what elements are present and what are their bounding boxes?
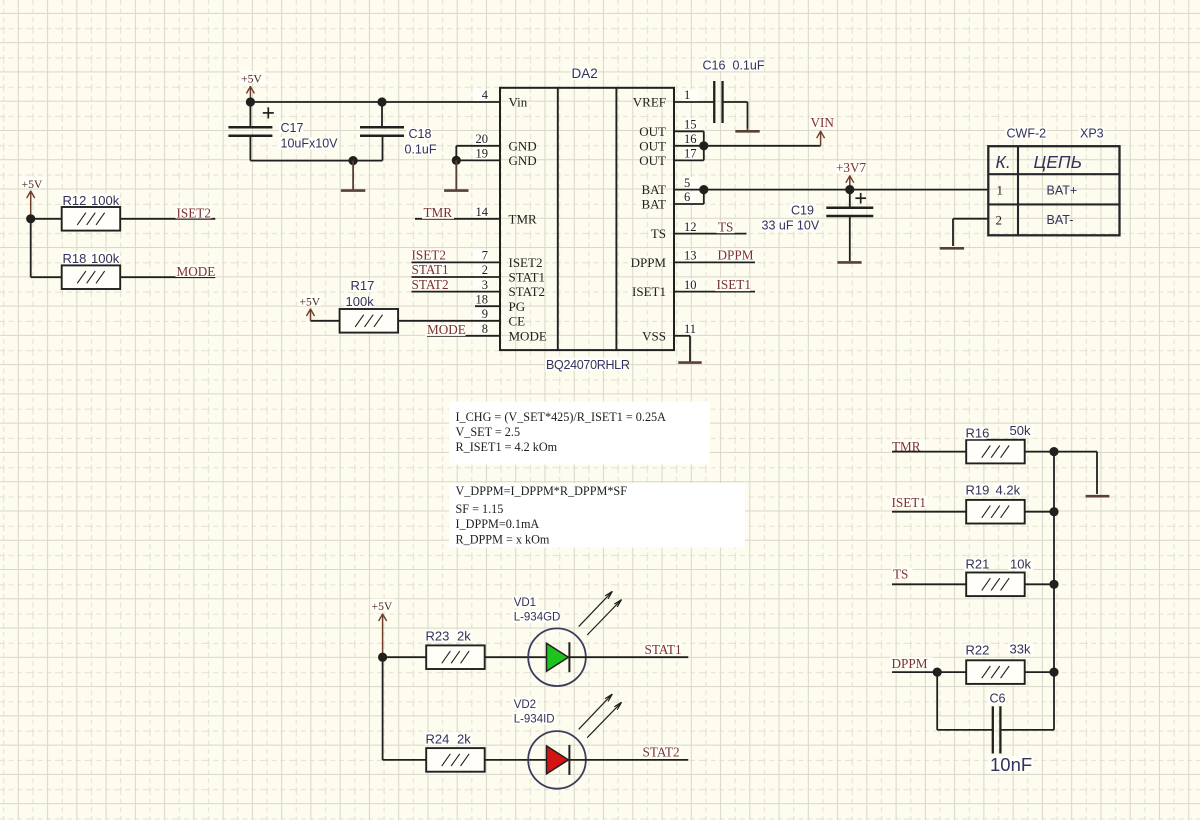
- net label ISET2: [176, 207, 212, 219]
- svg-text:6: 6: [684, 190, 690, 204]
- svg-text:15: 15: [684, 118, 697, 132]
- svg-text:XP3: XP3: [1080, 127, 1104, 141]
- resistor R21: [967, 574, 1024, 596]
- svg-text:2k: 2k: [457, 731, 471, 746]
- junction +3V7 / C19: [845, 185, 854, 194]
- label C17 10uFx10V: [279, 122, 303, 134]
- junction node +5V / R12: [26, 214, 35, 223]
- net label TS (ladder): [892, 567, 913, 580]
- connector XP3 table: [988, 146, 1119, 235]
- svg-text:12: 12: [684, 220, 697, 234]
- wire TMR to R16: [892, 451, 966, 453]
- svg-text:100k: 100k: [346, 294, 375, 309]
- label R18 100k: [62, 252, 120, 265]
- label VD1 L-934GD: [512, 596, 538, 609]
- svg-text:V_DPPM=I_DPPM*R_DPPM*SF: V_DPPM=I_DPPM*R_DPPM*SF: [456, 484, 628, 498]
- junction +5V / R23: [378, 653, 387, 662]
- wire +5V rail to pin 4 Vin: [250, 101, 500, 103]
- net label ISET1 (pin 10): [715, 279, 750, 292]
- svg-text:DPPM: DPPM: [631, 255, 667, 270]
- svg-text:R19: R19: [966, 483, 990, 498]
- label BQ24070RHLR: [545, 358, 625, 371]
- svg-text:+3V7: +3V7: [836, 160, 867, 175]
- DA2 pin 6 (BAT) right: [683, 191, 699, 203]
- svg-text:33k: 33k: [1010, 642, 1031, 657]
- svg-text:R21: R21: [966, 557, 990, 572]
- resistor R24: [427, 749, 484, 771]
- wire R16 to bus: [1025, 451, 1054, 453]
- svg-text:BAT+: BAT+: [1047, 183, 1078, 197]
- svg-text:OUT: OUT: [639, 138, 666, 153]
- wire VD1 to STAT1: [569, 656, 688, 658]
- svg-text:+5V: +5V: [241, 73, 262, 86]
- svg-text:PG: PG: [509, 299, 526, 314]
- svg-text:ISET2: ISET2: [412, 248, 446, 263]
- net label TS (pin 12): [717, 221, 735, 233]
- svg-text:2: 2: [996, 212, 1003, 227]
- wire R22 to bus: [1025, 671, 1054, 673]
- note block: V_DPPM formula: [449, 483, 745, 548]
- wire C6 to bus: [1000, 729, 1054, 731]
- svg-text:R22: R22: [966, 643, 990, 658]
- svg-text:BAT-: BAT-: [1047, 213, 1074, 227]
- svg-text:C19: C19: [791, 203, 814, 217]
- wire pin 1 VREF to C16: [674, 101, 714, 103]
- svg-text:TMR: TMR: [509, 211, 538, 226]
- DA2 pin 5 (BAT) right: [683, 177, 699, 189]
- junction R16 / bus: [1049, 447, 1058, 456]
- wire BAT pins 5/6 tie: [674, 189, 704, 191]
- power flag +3V7: [835, 162, 866, 174]
- wire BAT to XP3 pin 1: [704, 189, 989, 191]
- LED VD2 (L-934ID red): [528, 731, 586, 789]
- svg-text:ISET2: ISET2: [177, 205, 211, 220]
- svg-text:ЦЕПЬ: ЦЕПЬ: [1034, 152, 1082, 172]
- ground (C16): [747, 129, 749, 131]
- wire +5V rail to R23 and R24: [383, 656, 427, 658]
- svg-text:R23: R23: [426, 629, 450, 644]
- net label STAT1 (LED): [643, 643, 682, 656]
- svg-text:18: 18: [476, 292, 489, 306]
- wire ISET2 stub to pin 7: [412, 261, 501, 263]
- wire DPPM stub pin 13: [674, 261, 755, 263]
- svg-text:ISET1: ISET1: [717, 277, 751, 292]
- svg-text:К.: К.: [996, 152, 1011, 172]
- net label MODE (pin 8): [426, 323, 466, 336]
- DA2 pin 20 (GND) left: [473, 133, 489, 145]
- ground (ladder): [1086, 495, 1110, 498]
- label R22 33k: [964, 644, 987, 657]
- svg-text:STAT2: STAT2: [509, 284, 546, 299]
- capacitor C16 (0.1uF): [713, 81, 715, 123]
- svg-text:50k: 50k: [1010, 423, 1031, 438]
- svg-text:100k: 100k: [91, 251, 120, 266]
- label C6: [988, 692, 1006, 705]
- ground (BAT-): [940, 247, 964, 250]
- wire TS to R21: [892, 583, 966, 585]
- power +5V (R12/R18 rail): [21, 177, 46, 189]
- svg-text:DPPM: DPPM: [892, 656, 928, 671]
- svg-text:Vin: Vin: [509, 95, 528, 110]
- svg-text:ISET1: ISET1: [892, 495, 926, 510]
- svg-text:5: 5: [684, 176, 690, 190]
- svg-text:VD1: VD1: [514, 597, 536, 609]
- DA2 pin 16 (OUT) right: [683, 133, 699, 145]
- svg-text:TS: TS: [651, 226, 666, 241]
- svg-text:33 uF 10V: 33 uF 10V: [762, 218, 820, 232]
- svg-text:DA2: DA2: [572, 66, 598, 81]
- resistor R19: [967, 501, 1024, 523]
- net label TMR (pin 14): [422, 207, 454, 219]
- svg-text:R_DPPM = x kOm: R_DPPM = x kOm: [456, 533, 550, 547]
- DA2 pin 2 (STAT1) left: [473, 264, 489, 276]
- svg-text:STAT1: STAT1: [412, 262, 449, 277]
- svg-text:0.1uF: 0.1uF: [733, 58, 765, 72]
- svg-text:17: 17: [684, 147, 697, 161]
- wire GND pins 20/19: [456, 145, 500, 147]
- svg-text:1: 1: [684, 88, 690, 102]
- net label DPPM (pin 13): [716, 249, 756, 261]
- wire C17 bottom to C18 bottom: [250, 160, 382, 162]
- wire VD2 to STAT2: [569, 759, 688, 761]
- DA2 pin 19 (GND) left: [473, 148, 489, 160]
- ground (GND pins): [455, 160, 457, 189]
- power +5V (input rail): [240, 71, 265, 83]
- svg-text:V_SET = 2.5: V_SET = 2.5: [456, 425, 521, 439]
- net label DPPM (ladder): [890, 657, 933, 670]
- net label ISET2 (pin 7): [410, 249, 447, 261]
- label R23 2k: [425, 630, 473, 643]
- ground (C17/C18 node): [352, 161, 354, 190]
- DA2 pin 18 (PG) left: [473, 294, 489, 306]
- svg-text:2k: 2k: [457, 629, 471, 644]
- svg-text:R12: R12: [63, 193, 87, 208]
- resistor R23: [427, 646, 484, 668]
- DA2 pin 15 (OUT) right: [683, 119, 699, 131]
- svg-text:1: 1: [997, 183, 1004, 198]
- svg-text:SF = 1.15: SF = 1.15: [456, 502, 504, 516]
- capacitor C18 (0.1uF): [381, 102, 383, 128]
- svg-text:C17: C17: [281, 121, 304, 135]
- net label STAT1 (pin 2): [410, 264, 448, 276]
- resistor R16: [967, 441, 1024, 463]
- svg-text:BAT: BAT: [641, 182, 666, 197]
- svg-text:STAT1: STAT1: [645, 642, 682, 657]
- wire OUT to VIN flag: [704, 145, 821, 147]
- DA2 pin 4 (Vin) left: [473, 89, 489, 101]
- IC DA2 body (BQ24070RHLR): [500, 88, 674, 350]
- junction GND pins: [452, 156, 461, 165]
- svg-text:14: 14: [476, 205, 489, 219]
- svg-text:3: 3: [482, 278, 488, 292]
- label C19 33uF 10V: [790, 204, 815, 216]
- svg-text:GND: GND: [509, 153, 537, 168]
- svg-text:8: 8: [482, 322, 488, 336]
- DA2 pin 12 (TS) right: [683, 221, 699, 233]
- junction R19 / bus: [1049, 507, 1058, 516]
- svg-text:GND: GND: [509, 138, 537, 153]
- svg-text:13: 13: [684, 249, 697, 263]
- svg-text:TMR: TMR: [424, 205, 453, 220]
- svg-text:L-934ID: L-934ID: [514, 713, 555, 725]
- connector XP3 labels CWF-2 / XP3: [1005, 127, 1047, 140]
- wire TS stub pin 12: [674, 233, 747, 235]
- svg-text:R17: R17: [351, 278, 375, 293]
- svg-text:0.1uF: 0.1uF: [405, 142, 437, 156]
- svg-text:4.2k: 4.2k: [996, 483, 1021, 498]
- svg-text:L-934GD: L-934GD: [514, 612, 561, 624]
- DA2 pin 13 (DPPM) right: [683, 250, 699, 261]
- wire VSS pin 11 to ground: [674, 335, 690, 337]
- label C18 0.1uF: [407, 128, 432, 140]
- svg-text:VD2: VD2: [514, 699, 536, 711]
- wire R19 to bus: [1025, 511, 1054, 513]
- svg-text:MODE: MODE: [427, 322, 466, 337]
- wire TMR stub to pin 14: [415, 218, 500, 220]
- svg-text:VIN: VIN: [811, 115, 835, 130]
- svg-text:R24: R24: [426, 731, 450, 746]
- svg-text:19: 19: [476, 147, 489, 161]
- DA2 pin 3 (STAT2) left: [473, 279, 489, 291]
- wire ladder bus: [1053, 452, 1055, 730]
- svg-text:+5V: +5V: [372, 600, 393, 613]
- label R21 10k: [964, 558, 987, 571]
- wire ISET1 to R19: [892, 511, 966, 513]
- junction BAT: [699, 185, 708, 194]
- svg-text:DPPM: DPPM: [718, 248, 754, 263]
- svg-text:+5V: +5V: [22, 178, 43, 191]
- DA2 pin 11 (VSS) right: [683, 323, 699, 335]
- junction ground node (C17/C18): [349, 156, 358, 165]
- DA2 pin 14 (TMR) left: [473, 206, 489, 218]
- DA2 pin 9 (CE) left: [473, 308, 489, 320]
- svg-text:C18: C18: [409, 127, 432, 141]
- svg-text:TS: TS: [718, 220, 733, 235]
- wire OUT pins 15/16/17 tie: [674, 130, 704, 132]
- label VD2 L-934ID: [512, 697, 538, 710]
- wire R12 to net ISET2: [120, 218, 215, 220]
- label R17 100k: [350, 280, 374, 292]
- svg-text:ISET1: ISET1: [632, 284, 666, 299]
- svg-text:BAT: BAT: [641, 197, 666, 212]
- DA2 pin 7 (ISET2) left: [473, 250, 489, 261]
- svg-text:I_CHG = (V_SET*425)/R_ISET1 =: I_CHG = (V_SET*425)/R_ISET1 = 0.25A: [456, 410, 667, 424]
- svg-text:CWF-2: CWF-2: [1007, 127, 1047, 141]
- svg-text:OUT: OUT: [639, 153, 666, 168]
- ground (VSS): [678, 361, 701, 364]
- net label MODE: [176, 265, 216, 278]
- note block: I_CHG formula: [449, 402, 710, 465]
- capacitor C6 (10nF): [992, 706, 994, 753]
- net label ISET1 (ladder): [890, 496, 928, 509]
- svg-text:STAT2: STAT2: [412, 277, 449, 292]
- svg-text:VREF: VREF: [633, 95, 666, 110]
- svg-text:VSS: VSS: [642, 328, 666, 343]
- wire R21 to bus: [1025, 583, 1054, 585]
- svg-text:C16: C16: [703, 58, 726, 72]
- DA2 pin 10 (ISET1) right: [683, 279, 699, 291]
- ground (C19): [837, 261, 861, 264]
- wire R24 to VD2: [485, 759, 547, 761]
- svg-text:STAT2: STAT2: [643, 745, 680, 760]
- label R16 50k: [964, 427, 987, 440]
- wire +5V rail to R12 and R18: [31, 218, 62, 220]
- svg-text:TS: TS: [893, 566, 908, 581]
- LED VD2 emission arrows: [579, 694, 613, 729]
- power flag VIN: [809, 117, 833, 129]
- svg-text:16: 16: [684, 132, 697, 146]
- svg-text:10nF: 10nF: [990, 754, 1032, 775]
- label DA2: [571, 68, 598, 81]
- resistor R22: [967, 661, 1024, 683]
- wire STAT2 stub to pin 3: [412, 291, 501, 293]
- wire R17 to pin 9 CE: [398, 320, 500, 322]
- svg-text:9: 9: [482, 307, 488, 321]
- junction C18 top: [377, 97, 386, 106]
- resistor R18: [63, 266, 119, 288]
- label R19 4.2k: [964, 484, 987, 497]
- svg-text:20: 20: [476, 132, 489, 146]
- svg-text:ISET2: ISET2: [509, 255, 543, 270]
- wire DPPM to R22: [892, 671, 966, 673]
- svg-text:C6: C6: [990, 691, 1006, 705]
- power +5V (R17): [299, 295, 321, 307]
- svg-text:CE: CE: [509, 313, 526, 328]
- svg-text:4: 4: [482, 88, 489, 102]
- power +5V (LED rail): [371, 599, 395, 611]
- value label 10nF: [989, 756, 1034, 772]
- svg-text:10k: 10k: [1010, 557, 1031, 572]
- wire R18 to net MODE: [120, 276, 215, 278]
- junction DPPM / C6: [933, 668, 942, 677]
- svg-text:BQ24070RHLR: BQ24070RHLR: [546, 358, 630, 372]
- svg-text:R16: R16: [966, 426, 990, 441]
- resistor R17: [341, 310, 398, 332]
- net label TMR (ladder): [891, 440, 926, 453]
- wire PG stub pin 18: [475, 305, 500, 307]
- svg-text:7: 7: [482, 249, 488, 263]
- wire XP3 pin 2 BAT- to ground: [953, 218, 988, 220]
- resistor R12: [63, 208, 119, 230]
- label R24 2k: [425, 732, 473, 745]
- svg-text:MODE: MODE: [177, 264, 216, 279]
- net label STAT2 (LED): [641, 746, 681, 759]
- svg-text:10: 10: [684, 278, 697, 292]
- svg-text:+5V: +5V: [300, 297, 321, 309]
- capacitor C19 (electrolytic 33uF 10V): [849, 190, 851, 208]
- label C16 0.1uF: [701, 59, 761, 72]
- svg-text:I_DPPM=0.1mA: I_DPPM=0.1mA: [456, 517, 540, 531]
- wire R23 to VD1: [485, 656, 547, 658]
- junction R22 / bus: [1049, 668, 1058, 677]
- junction R21 / bus: [1049, 580, 1058, 589]
- wire bus to ground: [1054, 451, 1097, 453]
- svg-text:MODE: MODE: [509, 328, 547, 343]
- junction +5V / C17: [246, 97, 255, 106]
- svg-text:STAT1: STAT1: [509, 270, 546, 285]
- DA2 pin 8 (MODE) left: [473, 323, 489, 335]
- label R12 100k: [62, 194, 120, 207]
- wire DPPM node to C6: [936, 672, 938, 730]
- svg-text:R_ISET1 = 4.2 kOm: R_ISET1 = 4.2 kOm: [456, 440, 558, 454]
- DA2 pin 1 (VREF) right: [683, 89, 699, 101]
- svg-text:2: 2: [482, 263, 488, 277]
- junction OUT: [699, 141, 708, 150]
- wire ISET1 stub pin 10: [674, 291, 755, 293]
- net label STAT2 (pin 3): [410, 278, 448, 290]
- wire +5V to R17: [311, 320, 340, 322]
- wire MODE stub to pin 8: [427, 335, 500, 337]
- svg-text:100k: 100k: [91, 193, 120, 208]
- capacitor C17 (electrolytic 10uFx10V): [249, 102, 251, 128]
- svg-text:11: 11: [684, 322, 696, 336]
- wire STAT1 stub to pin 2: [412, 276, 501, 278]
- svg-text:OUT: OUT: [639, 124, 666, 139]
- DA2 pin 17 (OUT) right: [683, 148, 699, 160]
- svg-text:10uFx10V: 10uFx10V: [281, 137, 339, 151]
- LED VD1 (L-934GD green): [528, 628, 586, 686]
- LED VD1 emission arrows: [579, 591, 613, 626]
- svg-text:R18: R18: [63, 251, 87, 266]
